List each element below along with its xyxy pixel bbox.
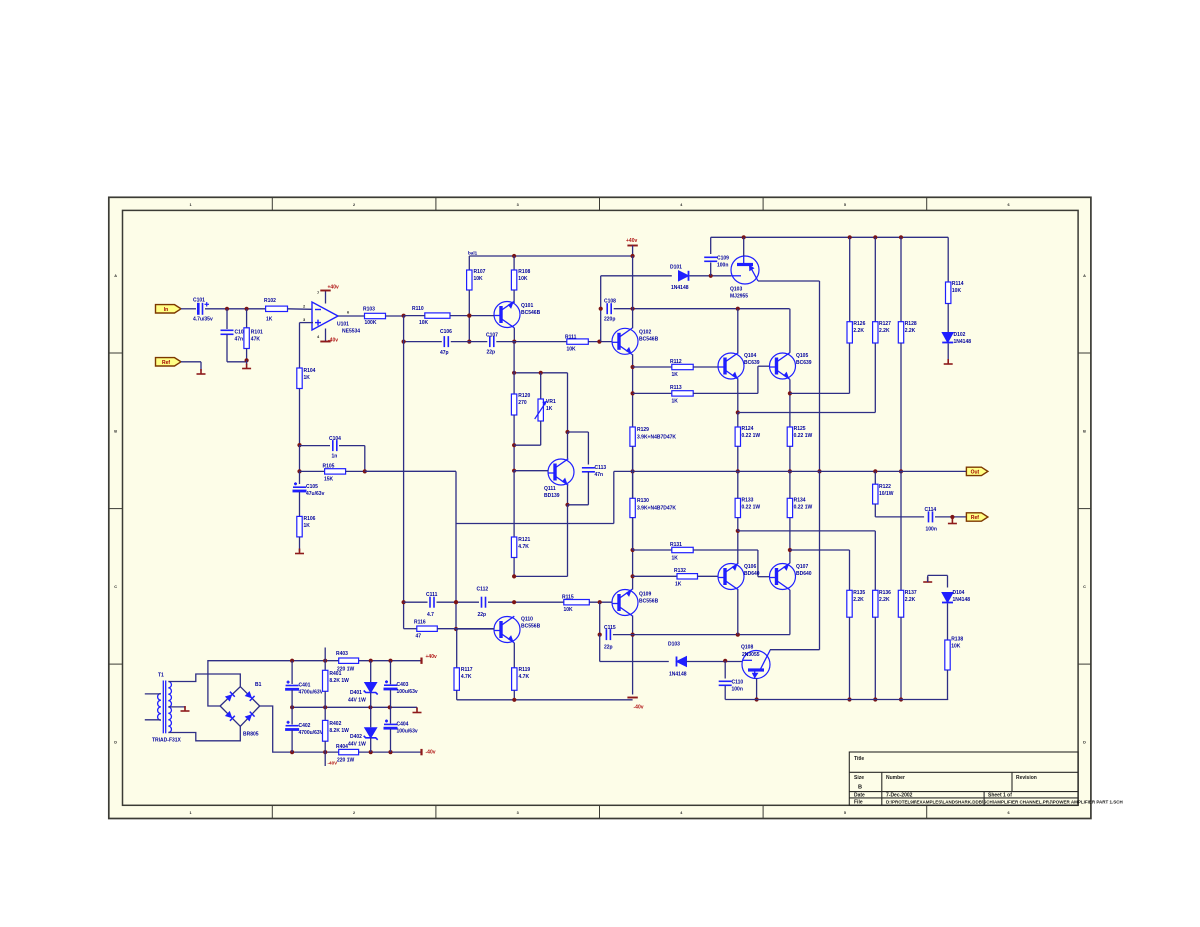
wire	[513, 558, 515, 577]
svg-text:T1: T1	[158, 673, 164, 679]
resistor R113	[672, 391, 693, 396]
svg-text:C111: C111	[426, 592, 438, 598]
svg-text:8.2K 1W: 8.2K 1W	[329, 728, 349, 734]
svg-text:Q101: Q101	[521, 303, 533, 309]
svg-text:4.7K: 4.7K	[461, 674, 472, 680]
capacitor C114 zobel	[929, 511, 933, 522]
wire	[404, 601, 428, 603]
wire	[513, 690, 515, 700]
ground LED chain lower	[923, 577, 932, 582]
wire	[205, 308, 266, 310]
svg-text:BD640: BD640	[744, 571, 760, 577]
wire	[737, 471, 739, 498]
svg-text:R117: R117	[461, 667, 473, 673]
resistor R132	[677, 574, 698, 579]
wire	[737, 309, 739, 353]
junction	[755, 697, 759, 701]
svg-text:47n: 47n	[235, 337, 244, 343]
svg-text:0.22 1W: 0.22 1W	[794, 433, 813, 439]
wire	[324, 661, 326, 671]
svg-text:10K: 10K	[567, 347, 577, 353]
wire	[540, 373, 542, 399]
svg-text:R403: R403	[336, 651, 348, 657]
svg-text:2: 2	[353, 203, 355, 207]
resistor R135 2.2K	[847, 590, 852, 617]
junction	[512, 340, 516, 344]
junction	[290, 659, 294, 663]
wire	[874, 617, 876, 699]
junction	[631, 365, 635, 369]
wire	[849, 550, 851, 590]
junction	[467, 314, 471, 318]
svg-text:10K: 10K	[564, 607, 574, 613]
junction	[873, 235, 877, 239]
wire	[226, 309, 228, 329]
schematic sheet background	[109, 197, 1091, 818]
svg-text:4.7K: 4.7K	[519, 674, 530, 680]
svg-text:4.7: 4.7	[427, 612, 434, 618]
wire	[300, 322, 314, 324]
wire Q108 collector	[770, 649, 820, 651]
svg-text:C109: C109	[717, 256, 729, 262]
svg-text:Revision: Revision	[1016, 775, 1037, 781]
wire	[789, 379, 791, 427]
wire	[600, 661, 669, 663]
transistor Q109 lower VAS	[612, 589, 638, 616]
svg-text:A: A	[1083, 274, 1086, 278]
wire	[687, 661, 743, 663]
wire center bus	[632, 354, 634, 589]
svg-text:Out: Out	[971, 470, 980, 476]
wire	[513, 256, 515, 270]
svg-text:C404: C404	[397, 722, 409, 728]
wire bal rail	[469, 255, 632, 257]
wire	[514, 575, 567, 577]
power bar +40V main	[627, 245, 637, 247]
svg-text:100u/63v: 100u/63v	[397, 689, 418, 695]
wire	[790, 549, 850, 551]
wire	[769, 649, 771, 652]
svg-text:3: 3	[517, 203, 519, 207]
wire	[404, 628, 417, 630]
wire	[386, 315, 404, 317]
title block frame	[849, 752, 1078, 805]
wire	[819, 281, 821, 471]
junction	[736, 469, 740, 473]
port Ref (left)	[156, 358, 182, 366]
bridge output wires	[208, 661, 292, 752]
svg-text:D103: D103	[668, 642, 680, 648]
junction	[847, 697, 851, 701]
svg-text:R119: R119	[519, 667, 531, 673]
svg-text:1N4148: 1N4148	[671, 285, 689, 291]
svg-text:10K: 10K	[518, 276, 528, 282]
svg-text:0.22 1W: 0.22 1W	[742, 505, 761, 511]
wire	[404, 315, 425, 317]
wire	[947, 699, 949, 701]
wire	[513, 373, 515, 394]
wire	[450, 315, 494, 317]
svg-text:BR805: BR805	[243, 732, 259, 738]
svg-text:R103: R103	[363, 307, 375, 313]
resistor R111	[567, 339, 589, 344]
capacitor C111	[430, 597, 434, 608]
wire	[246, 360, 248, 365]
svg-text:Size: Size	[854, 775, 864, 781]
svg-text:1N4148: 1N4148	[953, 597, 971, 603]
wire +40V bus	[632, 256, 634, 309]
svg-text:100K: 100K	[365, 320, 377, 326]
svg-text:BD640: BD640	[796, 571, 812, 577]
transistor Q103 MJ2955 upper	[731, 256, 759, 284]
wire	[325, 291, 327, 304]
ground feedback network	[295, 549, 304, 554]
resistor R106	[297, 516, 302, 537]
junction	[454, 600, 458, 604]
svg-text:7-Dec-2002: 7-Dec-2002	[886, 793, 913, 799]
junction	[539, 371, 543, 375]
wire	[737, 446, 739, 471]
svg-text:R104: R104	[304, 368, 316, 374]
wire	[390, 661, 392, 685]
wire	[947, 575, 949, 587]
svg-text:2.2K: 2.2K	[879, 328, 890, 334]
junction	[742, 235, 746, 239]
svg-text:1K: 1K	[304, 375, 311, 381]
wire	[927, 575, 929, 582]
wire VAS node	[614, 308, 790, 310]
svg-text:bal1: bal1	[468, 251, 478, 256]
resistor R119	[512, 668, 517, 691]
svg-text:C115: C115	[604, 625, 616, 631]
op-amp U101 NE5534	[312, 302, 338, 330]
resistor R134 0.22	[787, 498, 792, 517]
svg-text:C402: C402	[299, 723, 311, 729]
wire	[468, 316, 470, 342]
resistor R121	[511, 537, 516, 558]
wire	[291, 707, 293, 724]
bridge diode 1	[225, 692, 235, 702]
junction	[598, 600, 602, 604]
svg-text:R124: R124	[742, 426, 754, 432]
svg-text:R107: R107	[474, 269, 486, 275]
svg-text:Title: Title	[854, 756, 864, 762]
junction	[631, 633, 635, 637]
junction	[817, 469, 821, 473]
wire	[299, 389, 301, 446]
resistor R117	[454, 668, 459, 691]
resistor R138 10K	[945, 640, 950, 670]
capacitor C402 4700u	[285, 721, 299, 730]
junction	[709, 274, 713, 278]
svg-text:R401: R401	[329, 671, 341, 677]
port Out	[966, 467, 988, 475]
svg-text:100n: 100n	[732, 687, 743, 693]
svg-text:C104: C104	[329, 436, 341, 442]
svg-text:D:\PROTEL98\EXAMPLES\LANDSHARK: D:\PROTEL98\EXAMPLES\LANDSHARK.DDB\SCH\A…	[886, 800, 1123, 805]
junction	[454, 600, 458, 604]
resistor R130 thermistor lower	[630, 498, 635, 517]
svg-text:R134: R134	[794, 498, 806, 504]
svg-text:C112: C112	[477, 587, 489, 593]
wire	[568, 504, 589, 506]
wire	[299, 492, 301, 516]
svg-text:1K: 1K	[672, 372, 679, 378]
svg-text:R132: R132	[674, 568, 686, 574]
svg-text:10K: 10K	[952, 288, 962, 294]
svg-text:R106: R106	[304, 516, 316, 522]
svg-text:R402: R402	[329, 721, 341, 727]
svg-text:+40v: +40v	[426, 654, 437, 660]
wire	[693, 366, 718, 368]
svg-text:R111: R111	[565, 335, 577, 341]
wire	[514, 470, 548, 472]
wire	[874, 237, 876, 321]
junction	[402, 600, 406, 604]
svg-text:Date: Date	[854, 793, 865, 799]
wire	[737, 413, 739, 428]
svg-text:C110: C110	[732, 680, 744, 686]
svg-text:-40V: -40V	[328, 761, 339, 766]
resistor R105	[325, 469, 346, 474]
wire	[613, 471, 615, 523]
junction	[736, 307, 740, 311]
ground PSU mid rail	[413, 708, 422, 713]
zener D401	[364, 683, 378, 695]
svg-text:4700u/63V: 4700u/63V	[299, 730, 324, 736]
capacitor C106	[444, 336, 448, 347]
resistor R110	[425, 313, 450, 318]
svg-text:R404: R404	[336, 744, 348, 750]
wire	[181, 308, 196, 310]
junction	[467, 340, 471, 344]
wire	[567, 485, 569, 505]
wire	[456, 629, 458, 668]
wire	[599, 602, 601, 634]
wire Q105 collector	[789, 309, 791, 353]
ground transformer center tap	[181, 706, 190, 711]
svg-text:Q107: Q107	[796, 564, 808, 570]
junction	[899, 469, 903, 473]
bridge diode 3	[225, 711, 235, 721]
svg-text:C401: C401	[299, 683, 311, 689]
wire	[291, 690, 293, 707]
junction	[245, 358, 249, 362]
wire	[468, 256, 470, 270]
wire	[632, 518, 634, 550]
wire net stub +40V	[324, 648, 326, 661]
wire -40 unreg rail	[292, 751, 421, 753]
svg-text:Q111: Q111	[544, 486, 556, 492]
wire	[299, 471, 301, 484]
svg-text:R137: R137	[905, 590, 917, 596]
junction	[512, 254, 516, 258]
svg-text:BC639: BC639	[744, 360, 760, 366]
transformer secondary leads	[168, 674, 240, 741]
wire	[710, 263, 712, 276]
junction	[599, 307, 603, 311]
svg-text:C403: C403	[397, 682, 409, 688]
capacitor C104	[333, 440, 337, 451]
wire	[370, 693, 372, 708]
svg-text:NE5534: NE5534	[342, 329, 360, 335]
wire feedback drop	[455, 471, 457, 629]
wire	[390, 729, 392, 752]
wire	[568, 431, 589, 433]
junction	[402, 314, 406, 318]
resistor R136 2.2K	[873, 590, 878, 617]
power bar -40v PSU	[420, 749, 422, 755]
wire	[456, 628, 494, 630]
capacitor C107	[490, 336, 494, 347]
wire	[513, 328, 515, 342]
bridge diode 4	[245, 712, 255, 722]
wire	[288, 308, 313, 311]
wire	[513, 643, 515, 668]
resistor R404 series	[339, 749, 359, 754]
junction	[899, 697, 903, 701]
svg-text:R122: R122	[879, 484, 891, 490]
wire net stub -40V	[324, 752, 326, 766]
wire	[789, 590, 791, 635]
wire	[737, 379, 739, 412]
wire	[587, 432, 589, 465]
capacitor C105 47u	[293, 482, 307, 491]
wire	[365, 470, 456, 472]
svg-text:C101: C101	[193, 298, 205, 304]
svg-text:B1: B1	[255, 682, 262, 688]
zener D401 label	[348, 690, 366, 704]
wire	[849, 343, 851, 393]
svg-text:270: 270	[518, 400, 527, 406]
svg-text:R129: R129	[637, 427, 649, 433]
wire	[900, 617, 902, 699]
resistor R120 270	[511, 394, 516, 415]
wire	[947, 670, 949, 700]
svg-text:Q105: Q105	[796, 353, 808, 359]
bridge rectifier B1 diamond	[220, 687, 260, 727]
svg-text:3.9K+N4B7D47K: 3.9K+N4B7D47K	[637, 435, 676, 441]
resistor R108	[511, 270, 516, 290]
resistor R128 2.2K	[898, 322, 903, 343]
wire	[819, 471, 821, 649]
wire	[291, 661, 293, 684]
wire lower VAS node	[613, 634, 790, 636]
wire	[874, 471, 876, 484]
wire	[246, 349, 248, 361]
svg-text:4700u/63V: 4700u/63V	[299, 690, 324, 696]
svg-text:5: 5	[844, 203, 846, 207]
resistor R403 series	[339, 658, 359, 663]
svg-text:R114: R114	[952, 281, 964, 287]
wire	[324, 707, 326, 720]
svg-text:1K: 1K	[266, 317, 273, 323]
wire	[790, 392, 850, 394]
wire +40 unreg rail	[292, 660, 421, 662]
wire	[589, 601, 612, 603]
svg-text:A: A	[114, 274, 117, 278]
svg-text:R116: R116	[414, 620, 426, 626]
resistor R131	[672, 547, 693, 552]
svg-text:R128: R128	[905, 321, 917, 327]
svg-text:R105: R105	[323, 464, 335, 470]
wire	[693, 549, 758, 551]
resistor R102	[266, 306, 288, 311]
svg-text:2.2K: 2.2K	[879, 597, 890, 603]
junction	[369, 750, 373, 754]
svg-text:2.2K: 2.2K	[905, 597, 916, 603]
junction	[873, 697, 877, 701]
svg-text:B: B	[1083, 430, 1086, 434]
junction	[598, 633, 602, 637]
transformer primary leads	[145, 694, 161, 720]
svg-text:-40v: -40v	[426, 750, 436, 756]
border zone ticks	[109, 197, 1091, 818]
wire	[737, 590, 739, 635]
junction	[736, 529, 740, 533]
input port In	[156, 305, 182, 313]
svg-text:6: 6	[1007, 811, 1009, 815]
svg-text:44V 1W: 44V 1W	[348, 742, 366, 748]
junction	[323, 750, 327, 754]
svg-text:44V 1W: 44V 1W	[348, 698, 366, 704]
wire	[324, 691, 326, 707]
svg-text:R108: R108	[518, 269, 530, 275]
svg-text:1N4148: 1N4148	[954, 339, 972, 345]
title block texts	[854, 756, 1123, 806]
transistor Q105 driver	[770, 353, 796, 380]
svg-text:C108: C108	[604, 299, 616, 305]
wire	[338, 315, 364, 317]
svg-text:Q102: Q102	[639, 330, 651, 336]
svg-text:D402: D402	[350, 734, 362, 740]
wire	[874, 504, 876, 517]
wire	[743, 237, 745, 256]
svg-text:10/1W: 10/1W	[879, 491, 894, 497]
wire	[633, 575, 677, 577]
wire	[849, 617, 851, 699]
svg-text:100n: 100n	[717, 263, 728, 269]
junction	[950, 515, 954, 519]
svg-text:2.2K: 2.2K	[853, 597, 864, 603]
junction	[631, 254, 635, 258]
junction	[388, 705, 392, 709]
junction	[297, 469, 301, 473]
port Ref (right)	[966, 513, 988, 521]
svg-text:-40v: -40v	[634, 705, 644, 711]
svg-text:3: 3	[517, 811, 519, 815]
svg-text:1n: 1n	[332, 454, 338, 460]
junction	[565, 430, 569, 434]
junction	[512, 443, 516, 447]
ground at Ref right	[948, 519, 957, 524]
wire	[403, 602, 405, 629]
svg-text:R138: R138	[951, 637, 963, 643]
capacitor C108	[607, 303, 611, 314]
svg-text:+40v: +40v	[626, 238, 637, 244]
junction	[631, 469, 635, 473]
svg-text:220p: 220p	[604, 317, 615, 323]
svg-text:D401: D401	[350, 690, 362, 696]
svg-text:10K: 10K	[474, 276, 484, 282]
wire	[935, 516, 966, 518]
wire	[496, 341, 567, 343]
zener D402	[364, 728, 378, 740]
wire	[567, 373, 569, 432]
wire	[181, 361, 201, 363]
svg-text:+40v: +40v	[328, 285, 339, 291]
wire lower-left rail	[457, 699, 633, 701]
